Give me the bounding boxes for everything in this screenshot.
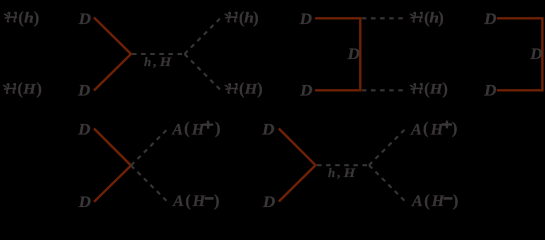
label H(H) outgoing (diagram 2, bottom right) (410, 79, 448, 98)
svg-text:A: A (410, 121, 422, 138)
svg-text:): ) (442, 79, 448, 98)
outgoing dashed line to H(H) (diagram 2, bottom) (362, 89, 404, 91)
svg-text:): ) (438, 8, 444, 27)
svg-text:D: D (483, 11, 497, 28)
svg-text:D: D (346, 46, 360, 63)
svg-text:A: A (411, 193, 423, 210)
label H(h) external leg (far-left cropped diagram, top) (5, 8, 40, 27)
svg-text:H: H (430, 121, 444, 138)
red lines: incoming D top, D exchange vertical, incoming D bottom (diagram 2) (315, 18, 360, 90)
svg-text:D: D (77, 121, 91, 138)
svg-text:): ) (215, 119, 221, 138)
svg-text:(: ( (424, 191, 430, 210)
label H(H) outgoing (diagram 1, bottom right) (225, 79, 262, 98)
incoming D line (diagram 4, lower red) (94, 166, 131, 202)
outgoing dashed line to H(h) (diagram 2, top) (362, 17, 404, 19)
svg-text:): ) (34, 8, 40, 27)
outgoing dashed line to H(H) (diagram 1, down-right) (185, 54, 222, 91)
svg-text:): ) (253, 8, 259, 27)
svg-text:D: D (78, 11, 92, 28)
svg-text:H: H (22, 82, 37, 98)
label H(h) outgoing (diagram 1, top right) (225, 8, 258, 27)
outgoing dashed line to A(H+) (diagram 5, up-right) (369, 129, 406, 166)
svg-text:D: D (299, 11, 313, 28)
svg-text:): ) (36, 79, 42, 98)
svg-text:(: ( (18, 8, 24, 27)
svg-text:D: D (299, 83, 313, 100)
svg-text:(: ( (184, 119, 190, 138)
svg-text:): ) (453, 191, 459, 210)
svg-text:H: H (192, 193, 206, 210)
svg-text:A: A (171, 121, 183, 138)
outgoing dashed line to H(h) (diagram 1, up-right) (185, 18, 222, 55)
propagator h,H (diagram 1, dashed) (132, 53, 185, 55)
svg-text:D: D (262, 194, 276, 211)
svg-text:(: ( (423, 119, 429, 138)
svg-text:D: D (483, 83, 497, 100)
label A(H-) outgoing (diagram 5, bottom right) (411, 191, 458, 210)
svg-text:h: h (24, 11, 34, 27)
label A(H+) outgoing (diagram 5, top right) (410, 119, 457, 139)
svg-text:): ) (257, 79, 263, 98)
label H(h) outgoing (diagram 2, top right) (410, 8, 443, 27)
red lines: incoming D top, D exchange vertical, incoming D bottom (diagram 3, cropped) (497, 18, 542, 90)
label A(H+) outgoing (diagram 4, top right) (171, 119, 220, 139)
svg-text:(: ( (424, 79, 430, 98)
svg-text:(: ( (239, 79, 245, 98)
incoming D lines (diagram 1, red V) (94, 18, 131, 91)
svg-text:H: H (191, 121, 205, 138)
outgoing dashed line to A(H-) (diagram 4, down-right) (131, 166, 168, 203)
svg-text:D: D (78, 194, 92, 211)
outgoing dashed line to A(H-) (diagram 5, down-right) (369, 165, 406, 202)
svg-text:): ) (452, 119, 458, 138)
incoming D line (diagram 4, upper red) (94, 129, 131, 166)
label H(H) external leg (far-left cropped diagram, bottom) (4, 79, 42, 98)
svg-text:(: ( (17, 79, 23, 98)
propagator h,H (diagram 5, dashed) (317, 164, 369, 166)
svg-text:D: D (261, 121, 275, 138)
svg-text:A: A (172, 193, 184, 210)
svg-text:D: D (529, 46, 543, 63)
outgoing dashed line to A(H+) (diagram 4, up-right) (131, 129, 168, 166)
label A(H-) outgoing (diagram 4, bottom right) (172, 191, 219, 210)
svg-text:D: D (77, 83, 91, 100)
svg-text:): ) (214, 191, 220, 210)
svg-text:(: ( (185, 191, 191, 210)
svg-text:H: H (431, 193, 445, 210)
incoming D lines (diagram 5, red V) (279, 129, 316, 202)
